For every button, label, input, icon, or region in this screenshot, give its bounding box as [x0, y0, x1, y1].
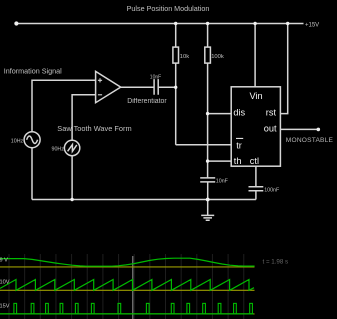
- op-amp - input mark: [98, 94, 102, 96]
- svg-text:100nF: 100nF: [264, 188, 280, 194]
- op-amp U1 triangle: [96, 71, 121, 102]
- svg-text:10Hz: 10Hz: [11, 138, 24, 144]
- wire: bottom ground rail: [32, 199, 256, 201]
- svg-text:dis: dis: [233, 108, 245, 118]
- resistor R2 100k: [205, 47, 211, 63]
- svg-text:9 V: 9 V: [0, 258, 8, 264]
- wire: sine source bottom lead: [31, 148, 33, 200]
- svg-text:10k: 10k: [180, 54, 189, 60]
- svg-text:Differentiator: Differentiator: [127, 98, 167, 105]
- tr overline: [236, 137, 243, 139]
- scope zero line row 1: [0, 266, 255, 268]
- node: ground rail junction at sawtooth: [70, 198, 73, 201]
- capacitor C4 100nF plates: [249, 187, 264, 191]
- wire: dis pin wire: [208, 113, 232, 115]
- svg-text:15V: 15V: [0, 303, 10, 309]
- sawtooth source V2 symbol: [68, 145, 77, 152]
- wire: cap C3 to node A: [158, 86, 176, 88]
- svg-text:10nF: 10nF: [216, 179, 229, 185]
- svg-text:90Hz: 90Hz: [52, 147, 65, 153]
- scope zero line row 3: [0, 313, 255, 315]
- svg-text:out: out: [264, 123, 277, 133]
- svg-text:MONOSTABLE: MONOSTABLE: [286, 137, 334, 144]
- scope trace row 1: information signal sine: [0, 258, 255, 266]
- scope zero line row 2: [0, 289, 255, 291]
- svg-text:Saw Tooth Wave Form: Saw Tooth Wave Form: [57, 124, 131, 133]
- resistor R1 10k: [173, 47, 179, 63]
- op-amp + input mark: [98, 78, 102, 82]
- svg-text:10V: 10V: [0, 280, 10, 286]
- wire: cap C1 to ground rail: [207, 182, 209, 200]
- wire: ctl pin to cap C4: [255, 166, 257, 187]
- ground symbol: [201, 200, 214, 221]
- svg-text:Pulse Position Modulation: Pulse Position Modulation: [127, 4, 210, 13]
- wire: cap C4 to ground rail: [255, 191, 257, 200]
- wire: R1 top lead: [175, 24, 177, 48]
- scope trace row 3: output pulses baseline: [0, 313, 254, 315]
- node: rail junction at R2: [206, 22, 209, 25]
- node: out endpoint dot: [317, 128, 321, 132]
- 555 timer U2 box: [231, 87, 280, 166]
- wire: op-amp output to cap C3: [121, 86, 154, 88]
- svg-text:t = 1.98 s: t = 1.98 s: [263, 259, 289, 266]
- node: rail junction at Vin: [253, 22, 256, 25]
- wire: th pin wire: [208, 160, 232, 162]
- node: rail left endpoint dot: [14, 21, 18, 25]
- scope gridlines: [9, 254, 244, 319]
- svg-text:Information Signal: Information Signal: [4, 66, 62, 75]
- wire: sawtooth source bottom lead: [71, 156, 73, 200]
- wire: rst pin to rail: [280, 24, 287, 114]
- node: ground rail junction at ground symbol: [206, 198, 210, 202]
- wire: tr pin wire: [176, 144, 232, 146]
- scope trace row 3: pulses: [14, 303, 253, 314]
- capacitor C3 10nF plates: [154, 79, 158, 95]
- wire: R1 bottom lead down to tr level: [175, 63, 177, 145]
- wire: R2 top lead: [207, 24, 209, 48]
- svg-text:10nF: 10nF: [150, 74, 161, 80]
- wire: R2 bottom lead down to cap C1: [207, 63, 209, 178]
- wire: sawtooth to op-amp - input: [72, 95, 96, 141]
- svg-text:th: th: [234, 156, 242, 166]
- capacitor C1 10nF plates: [200, 178, 215, 182]
- svg-text:rst: rst: [266, 108, 277, 118]
- node: dis junction: [206, 112, 209, 115]
- wire: +15V top rail: [16, 23, 303, 25]
- scope time cursor: [132, 256, 134, 319]
- svg-text:ctl: ctl: [250, 156, 259, 166]
- svg-text:+15V: +15V: [305, 22, 319, 28]
- node: th junction: [206, 159, 209, 162]
- node: rail junction at rst: [286, 22, 289, 25]
- node A: differentiator output junction: [174, 86, 177, 89]
- wire: Vin pin from rail: [254, 24, 256, 87]
- node: rail junction at R1: [174, 22, 177, 25]
- wire: information signal to op-amp + input: [32, 80, 96, 131]
- svg-text:tr: tr: [236, 140, 242, 150]
- sine source V1 symbol: [27, 136, 38, 144]
- svg-text:100k: 100k: [211, 54, 224, 60]
- wire: out pin wire: [280, 128, 318, 130]
- sine source V1 circle: [24, 132, 40, 148]
- svg-text:Vin: Vin: [249, 91, 262, 101]
- sawtooth source V2 circle: [64, 140, 79, 155]
- scope trace row 2: sawtooth: [0, 280, 254, 291]
